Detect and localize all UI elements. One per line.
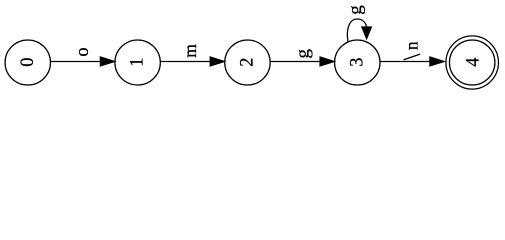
state 1 circle bbox=[115, 40, 160, 85]
state 0 circle bbox=[5, 40, 50, 85]
svg-text:4: 4 bbox=[463, 58, 483, 67]
state 3 bbox=[335, 40, 380, 85]
state 1 bbox=[115, 40, 160, 85]
svg-text:0: 0 bbox=[17, 58, 37, 67]
edge label "\n": backslash part bbox=[404, 54, 420, 60]
svg-text:3: 3 bbox=[346, 58, 366, 67]
svg-text:g: g bbox=[345, 5, 366, 15]
self-loop wire 3->3 bbox=[347, 19, 366, 42]
edge 0->1 bbox=[51, 47, 115, 66]
svg-text:2: 2 bbox=[236, 58, 256, 67]
svg-text:n: n bbox=[401, 41, 421, 50]
self-loop edge 3->3 bbox=[345, 5, 371, 42]
wire 1->2 bbox=[161, 60, 212, 62]
arrowhead 2->3 bbox=[320, 57, 334, 66]
state 2 bbox=[225, 40, 270, 85]
edge 3->4 bbox=[380, 41, 444, 66]
FSM diagram (graphviz rotate=90 style) bbox=[0, 0, 505, 95]
arrowhead 1->2 bbox=[210, 57, 224, 66]
arrowhead 3->4 bbox=[430, 57, 444, 66]
svg-text:g: g bbox=[292, 49, 313, 59]
wire 3->4 bbox=[380, 60, 431, 62]
wire 2->3 bbox=[270, 60, 321, 62]
edge 1->2 bbox=[161, 44, 225, 66]
state 3 circle bbox=[335, 40, 380, 85]
edge 2->3 bbox=[270, 49, 334, 66]
state 2 circle bbox=[225, 40, 270, 85]
svg-text:1: 1 bbox=[127, 58, 147, 67]
self-loop arrowhead 3->3 bbox=[362, 27, 372, 39]
state 4 (accepting, double circle) bbox=[446, 36, 499, 89]
wire 0->1 bbox=[51, 60, 102, 62]
state 0 bbox=[5, 40, 50, 85]
arrowhead 0->1 bbox=[100, 57, 114, 66]
svg-text:o: o bbox=[72, 47, 92, 56]
svg-text:m: m bbox=[180, 44, 200, 58]
state 4 inner circle bbox=[449, 40, 494, 85]
state 4 outer circle bbox=[446, 36, 499, 89]
